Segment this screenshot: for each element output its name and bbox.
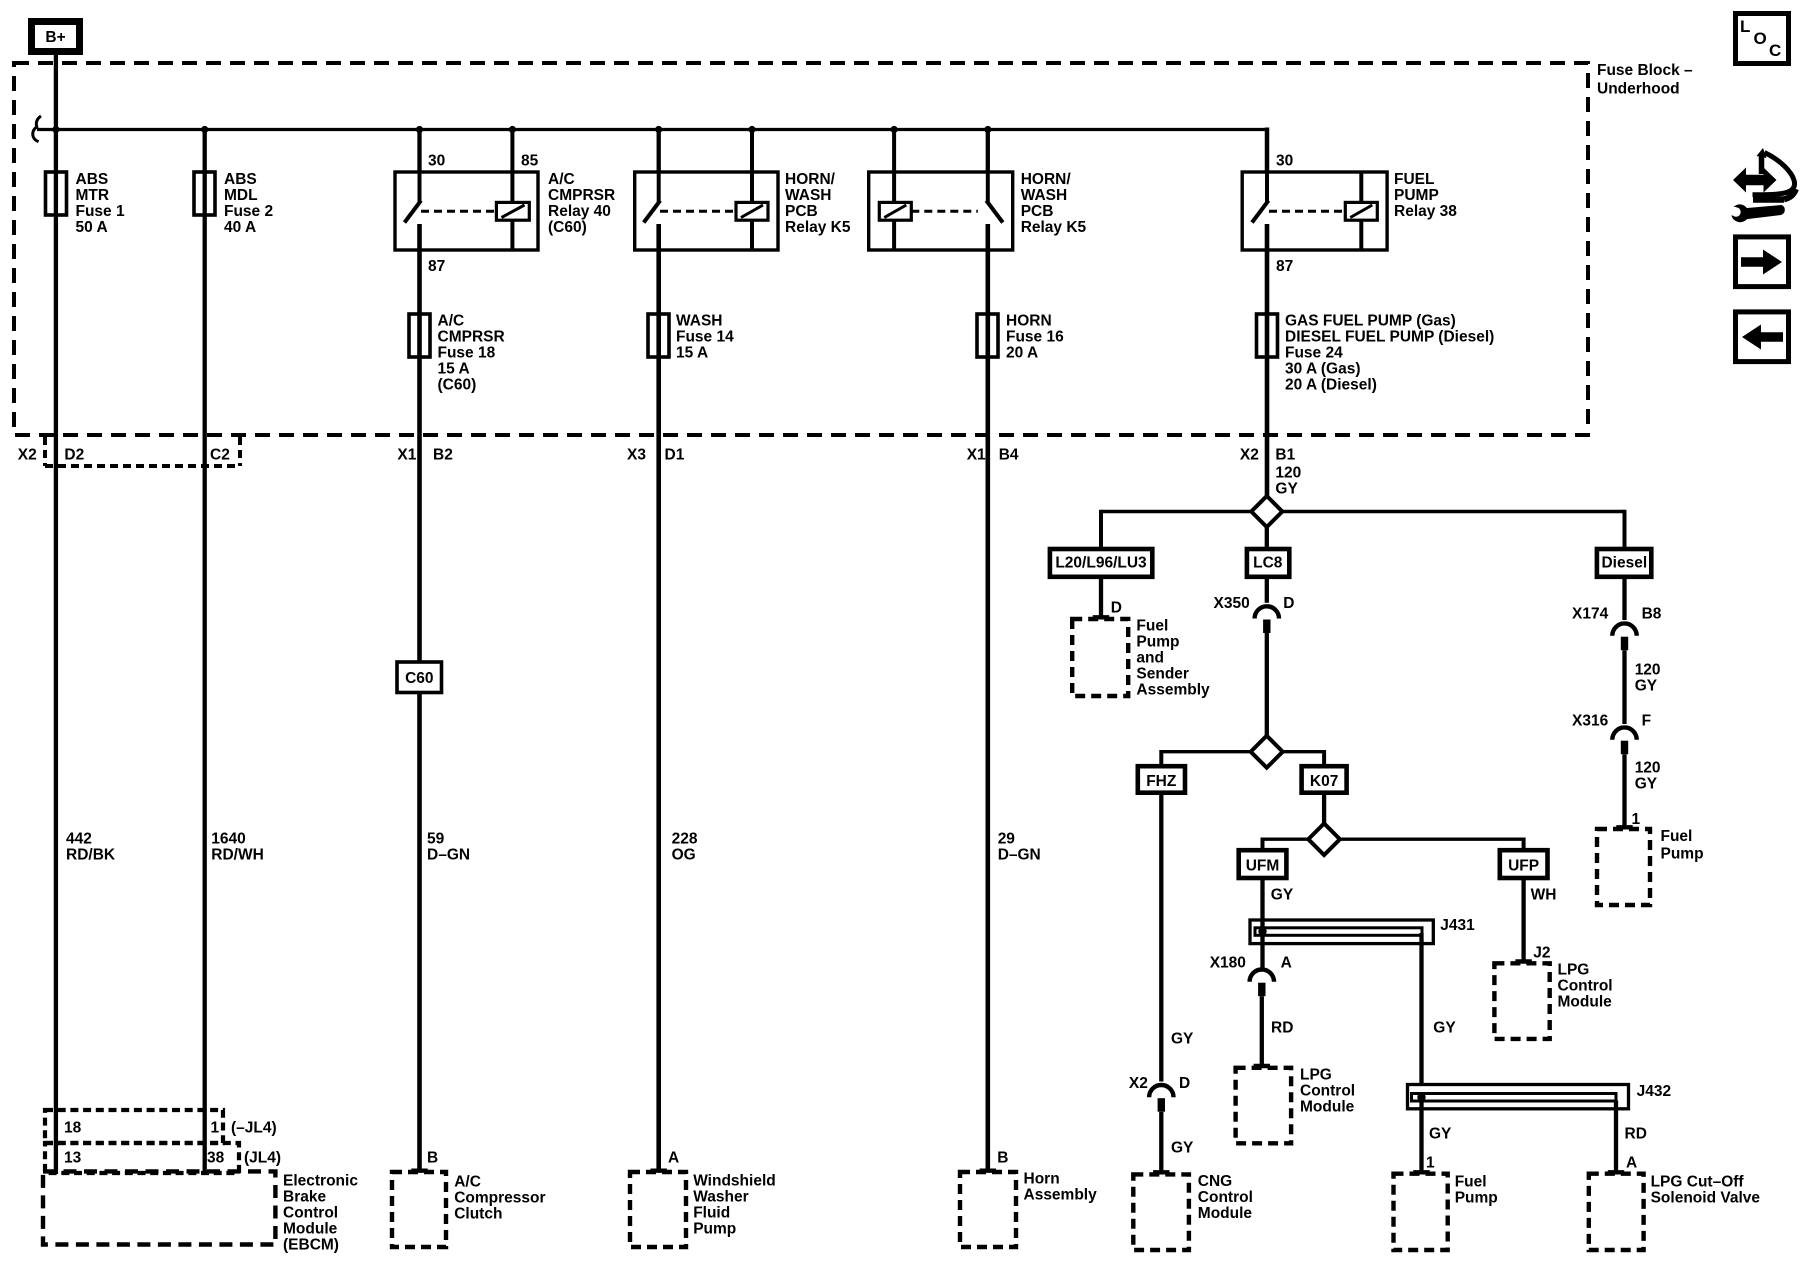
wire: relay K5-2 to horn (circuit 29) xyxy=(980,224,996,1171)
svg-text:L: L xyxy=(1740,17,1750,36)
wire: X350 to splice S2 xyxy=(1265,633,1269,737)
label: Fuse Block Underhood xyxy=(1597,62,1693,98)
svg-text:1: 1 xyxy=(1426,1155,1435,1172)
junction on bus x=987.8 xyxy=(984,126,991,133)
svg-text:GY: GY xyxy=(1271,887,1294,904)
Windshield Washer Fluid Pump component box xyxy=(630,1172,776,1247)
splice diamond S3 xyxy=(1308,823,1340,855)
label J432 xyxy=(1637,1083,1671,1100)
connector crossing X1 B2 xyxy=(397,447,452,464)
pin 1 fuel pump xyxy=(1426,1155,1435,1172)
LOC reference box xyxy=(1736,14,1789,64)
relay K5-2 coil pin wire xyxy=(892,130,896,204)
svg-text:59: 59 xyxy=(427,831,445,848)
svg-text:C60: C60 xyxy=(405,670,433,687)
svg-text:GY: GY xyxy=(1429,1126,1452,1143)
svg-text:GAS FUEL PUMP (Gas): GAS FUEL PUMP (Gas) xyxy=(1285,313,1456,330)
fuse block underhood dashed boundary xyxy=(14,63,1588,435)
svg-text:PCB: PCB xyxy=(785,203,818,220)
CNG Control Module component box xyxy=(1133,1173,1253,1250)
splice diamond S2 xyxy=(1251,736,1283,768)
wire: S2 right branch to K07 xyxy=(1282,750,1324,766)
wire: S1 left branch to L20/L96/LU3 xyxy=(1101,510,1252,547)
pin D fuel pump sender xyxy=(1111,600,1122,617)
fuse F16 HORN 20A xyxy=(977,313,1064,362)
svg-text:Fuel: Fuel xyxy=(1136,618,1168,635)
svg-text:Underhood: Underhood xyxy=(1597,81,1680,98)
Fuel Pump (LPG) component box xyxy=(1394,1174,1498,1251)
svg-text:A/C: A/C xyxy=(438,313,465,330)
Fuel Pump (diesel) component box xyxy=(1597,828,1704,905)
svg-text:Compressor: Compressor xyxy=(454,1190,545,1207)
relay K5-1 switch pin wire xyxy=(657,130,661,173)
label J431 xyxy=(1440,917,1475,934)
svg-text:A/C: A/C xyxy=(548,171,575,188)
svg-text:85: 85 xyxy=(521,153,539,170)
relay 38 pin 87 xyxy=(1276,258,1293,275)
relay K5 horn/wash box 2 xyxy=(869,172,1013,250)
connector X2 pin D (CNG) xyxy=(1129,1075,1190,1112)
junction on bus x=204.7 xyxy=(201,126,208,133)
relay 40 pin 30 wire xyxy=(420,130,446,173)
svg-text:1: 1 xyxy=(211,1120,220,1137)
wire: relay40 pin87 to C60 (circuit 59) xyxy=(417,224,422,663)
svg-text:MTR: MTR xyxy=(76,187,110,204)
junction on bus x=752 xyxy=(748,126,755,133)
svg-text:RD/BK: RD/BK xyxy=(66,847,116,864)
svg-text:Brake: Brake xyxy=(283,1189,326,1206)
svg-text:Pump: Pump xyxy=(1661,846,1704,863)
wire label 59 D-GN xyxy=(427,831,470,864)
RPO box UFP xyxy=(1500,850,1548,878)
svg-text:X2: X2 xyxy=(1129,1075,1148,1092)
svg-text:Washer: Washer xyxy=(693,1189,748,1206)
fuse F14 WASH 15A xyxy=(648,313,734,362)
wire: X2 to CNG module (GY) xyxy=(1153,1112,1194,1173)
svg-text:120: 120 xyxy=(1635,760,1661,777)
svg-text:(C60): (C60) xyxy=(548,219,587,236)
svg-text:X1: X1 xyxy=(397,447,416,464)
wire: UFM to J431 (GY) xyxy=(1263,878,1294,928)
svg-text:Relay K5: Relay K5 xyxy=(1021,219,1087,236)
svg-text:J431: J431 xyxy=(1440,917,1475,934)
engine option box LC8 xyxy=(1247,549,1289,577)
svg-text:50 A: 50 A xyxy=(76,219,108,236)
next-page arrow box xyxy=(1736,237,1789,287)
connector X180 pin A xyxy=(1210,955,1292,997)
svg-text:ABS: ABS xyxy=(76,171,109,188)
svg-text:WASH: WASH xyxy=(1021,187,1067,204)
svg-text:Pump: Pump xyxy=(1455,1190,1498,1207)
LPG Cut-Off Solenoid Valve component box xyxy=(1589,1174,1761,1251)
svg-text:Relay 40: Relay 40 xyxy=(548,203,611,220)
svg-text:RD: RD xyxy=(1271,1020,1293,1037)
svg-text:B: B xyxy=(427,1150,438,1167)
svg-text:GY: GY xyxy=(1433,1020,1456,1037)
connector crossing X1 B4 xyxy=(967,447,1019,464)
Horn Assembly component box xyxy=(960,1171,1097,1248)
svg-text:LC8: LC8 xyxy=(1253,555,1283,572)
wire: main B+ bus xyxy=(37,128,1265,131)
pin B of horn assembly xyxy=(997,1150,1008,1167)
previous-page arrow box xyxy=(1736,312,1789,362)
relay K5-1 coil xyxy=(736,202,768,251)
svg-text:B: B xyxy=(997,1150,1008,1167)
svg-text:18: 18 xyxy=(64,1120,82,1137)
wire label 120 GY xyxy=(1275,465,1301,498)
svg-text:X316: X316 xyxy=(1572,713,1609,730)
connector X350 pin D xyxy=(1214,595,1295,633)
svg-text:D–GN: D–GN xyxy=(998,847,1041,864)
svg-text:F: F xyxy=(1642,713,1651,730)
svg-text:A/C: A/C xyxy=(454,1174,481,1191)
pin 38 with (JL4) xyxy=(207,1150,281,1167)
wire label 228 OG xyxy=(672,831,698,864)
svg-text:WASH: WASH xyxy=(676,313,723,330)
svg-text:13: 13 xyxy=(64,1150,82,1167)
relay 40 A/C CMPRSR box xyxy=(395,172,538,250)
relay 38 name label xyxy=(1394,171,1457,220)
junction on bus x=658.7 xyxy=(655,126,662,133)
relay 40 switch xyxy=(405,170,422,223)
svg-text:X3: X3 xyxy=(627,447,646,464)
svg-text:B1: B1 xyxy=(1275,447,1295,464)
fuse F2 ABS MDL 40A xyxy=(194,171,273,236)
svg-text:PCB: PCB xyxy=(1021,203,1054,220)
svg-text:Relay K5: Relay K5 xyxy=(785,219,851,236)
wire: Diesel box to X174 xyxy=(1622,577,1626,620)
svg-text:J432: J432 xyxy=(1637,1083,1671,1100)
svg-text:HORN/: HORN/ xyxy=(785,171,836,188)
svg-text:Diesel: Diesel xyxy=(1601,555,1647,572)
svg-text:15 A: 15 A xyxy=(676,345,708,362)
svg-text:D2: D2 xyxy=(64,447,84,464)
svg-text:ABS: ABS xyxy=(224,171,257,188)
svg-text:1640: 1640 xyxy=(211,831,245,848)
svg-text:CMPRSR: CMPRSR xyxy=(548,187,615,204)
fusible-link curl at bus origin xyxy=(33,116,41,142)
pin B of A/C compressor clutch xyxy=(427,1150,438,1167)
wire: X180 to LPG module (RD) xyxy=(1254,996,1294,1066)
svg-text:GY: GY xyxy=(1275,481,1298,498)
svg-text:15 A: 15 A xyxy=(438,361,470,378)
wire label 120 GY diesel lower xyxy=(1616,754,1660,827)
svg-text:Sender: Sender xyxy=(1136,666,1189,683)
engine option box L20/L96/LU3 xyxy=(1050,549,1152,577)
pin 13 xyxy=(64,1150,82,1167)
svg-text:Pump: Pump xyxy=(693,1221,736,1238)
Fuel Pump and Sender Assembly component box xyxy=(1072,618,1210,699)
connector crossing X2 D2 C2 xyxy=(18,447,230,464)
battery feed B+ terminal xyxy=(32,22,80,52)
connector crossing X3 D1 xyxy=(627,447,685,464)
wire: relay K5-1 to washer pump (circuit 228) xyxy=(651,224,667,1171)
svg-text:120: 120 xyxy=(1635,662,1661,679)
svg-text:Clutch: Clutch xyxy=(454,1206,502,1223)
svg-text:Fuse 24: Fuse 24 xyxy=(1285,345,1343,362)
relay 38 fuel pump box xyxy=(1242,172,1387,250)
svg-text:LPG: LPG xyxy=(1300,1067,1332,1084)
relay 38 switch xyxy=(1252,170,1269,223)
relay K5 horn/wash box 1 xyxy=(635,172,778,250)
wire: LC8 to connector X350 xyxy=(1265,577,1269,603)
wire: S1 bottom to LC8 xyxy=(1265,526,1269,549)
svg-text:Solenoid Valve: Solenoid Valve xyxy=(1651,1190,1761,1207)
wire: C60 to A/C compressor clutch xyxy=(411,693,427,1171)
svg-text:29: 29 xyxy=(998,831,1016,848)
wire: J432 left to fuel pump (GY) xyxy=(1413,1101,1452,1173)
svg-text:X180: X180 xyxy=(1210,955,1246,972)
svg-text:Fuse 14: Fuse 14 xyxy=(676,329,734,346)
wire: FHZ to X2 connector (GY) xyxy=(1161,793,1194,1082)
svg-text:and: and xyxy=(1136,650,1164,667)
svg-text:40 A: 40 A xyxy=(224,219,256,236)
svg-text:(EBCM): (EBCM) xyxy=(283,1237,339,1254)
svg-text:O: O xyxy=(1754,29,1767,48)
A/C Compressor Clutch component box xyxy=(392,1172,546,1247)
junction on bus x=55.9 xyxy=(52,126,59,133)
connector grouping dashed box below X2 D2 C2 xyxy=(45,437,240,466)
relay 40 coil xyxy=(496,202,529,251)
svg-text:Fuse 18: Fuse 18 xyxy=(438,345,496,362)
svg-text:Relay 38: Relay 38 xyxy=(1394,203,1457,220)
svg-text:Fuse 2: Fuse 2 xyxy=(224,203,273,220)
wire: S2 left branch to FHZ xyxy=(1161,750,1251,766)
svg-text:B2: B2 xyxy=(433,447,453,464)
Electronic Brake Control Module component box xyxy=(43,1171,358,1253)
svg-text:20 A: 20 A xyxy=(1006,345,1038,362)
wire label 29 D-GN xyxy=(998,831,1041,864)
svg-text:Module: Module xyxy=(1558,994,1613,1011)
svg-text:D–GN: D–GN xyxy=(427,847,470,864)
splice pack J432 xyxy=(1408,1085,1629,1109)
svg-text:30: 30 xyxy=(428,153,445,170)
LPG Control Module (center) component box xyxy=(1236,1067,1356,1144)
relay 40 pin 87 xyxy=(428,258,445,275)
relay 38 actuator dashed link xyxy=(1269,210,1345,213)
inline connector C60 xyxy=(397,662,442,693)
svg-text:Fuse 16: Fuse 16 xyxy=(1006,329,1064,346)
service tool icon xyxy=(1727,148,1797,222)
svg-text:Control: Control xyxy=(1300,1083,1355,1100)
relay K5-2 actuator dashed link xyxy=(911,210,978,213)
svg-text:X1: X1 xyxy=(967,447,986,464)
svg-text:Electronic: Electronic xyxy=(283,1173,358,1190)
relay 40 name label xyxy=(548,171,615,236)
svg-text:87: 87 xyxy=(1276,258,1293,275)
svg-text:FHZ: FHZ xyxy=(1146,773,1177,790)
svg-text:(JL4): (JL4) xyxy=(244,1150,281,1167)
fuse F1 ABS MTR 50A xyxy=(46,171,125,236)
svg-text:Fuse Block –: Fuse Block – xyxy=(1597,62,1693,79)
svg-text:Windshield: Windshield xyxy=(693,1173,776,1190)
svg-text:C: C xyxy=(1769,41,1781,60)
pin A LPG cut-off valve xyxy=(1626,1155,1637,1172)
wire: S3 left branch to UFM xyxy=(1263,838,1309,851)
RPO box UFM xyxy=(1239,850,1287,878)
pin 1 diesel fuel pump xyxy=(1632,811,1641,828)
relay K5-1 switch xyxy=(644,170,661,223)
wire: B+ drop / circuit 442 column xyxy=(54,53,58,1174)
svg-text:B+: B+ xyxy=(45,29,65,46)
svg-text:FUEL: FUEL xyxy=(1394,171,1434,188)
relay 40 pin 85 coil wire xyxy=(512,130,538,204)
svg-text:1: 1 xyxy=(1632,811,1641,828)
connector X174 pin B8 xyxy=(1572,606,1662,651)
svg-text:Control: Control xyxy=(1198,1189,1253,1206)
wire: K07 to splice S3 xyxy=(1322,793,1326,825)
wire label 1640 RD/WH xyxy=(211,831,264,864)
svg-text:DIESEL FUEL PUMP (Diesel): DIESEL FUEL PUMP (Diesel) xyxy=(1285,329,1494,346)
svg-text:GY: GY xyxy=(1171,1140,1194,1157)
svg-text:Module: Module xyxy=(283,1221,338,1238)
svg-text:GY: GY xyxy=(1635,678,1658,695)
svg-text:J2: J2 xyxy=(1533,945,1550,962)
svg-text:Control: Control xyxy=(1558,978,1613,995)
wire label 442 RD/BK xyxy=(66,831,116,864)
svg-text:GY: GY xyxy=(1635,776,1658,793)
svg-text:X350: X350 xyxy=(1214,595,1250,612)
junction on bus x=894.1 xyxy=(891,126,898,133)
svg-text:Fuel: Fuel xyxy=(1661,828,1693,845)
svg-text:Fuse 1: Fuse 1 xyxy=(76,203,125,220)
engine option box Diesel xyxy=(1597,549,1651,577)
relay K5-2 switch xyxy=(986,170,1003,223)
fuse F18 A/C CMPRSR 15A xyxy=(409,313,505,394)
svg-text:C2: C2 xyxy=(210,447,230,464)
junction on bus x=419.5 xyxy=(416,126,423,133)
svg-text:D1: D1 xyxy=(665,447,685,464)
wire: UFP to J2 (WH) xyxy=(1515,878,1556,962)
relay K5-1 actuator dashed link xyxy=(660,210,736,213)
junction on bus x=512.4 xyxy=(509,126,516,133)
svg-text:Module: Module xyxy=(1300,1099,1355,1116)
svg-text:X174: X174 xyxy=(1572,606,1609,623)
relay 38 coil xyxy=(1345,172,1377,251)
svg-text:A: A xyxy=(1281,955,1292,972)
relay 38 pin 30 wire from bus elbow xyxy=(1267,128,1293,173)
svg-text:B8: B8 xyxy=(1642,606,1662,623)
fuse F24 fuel pump xyxy=(1257,313,1495,394)
svg-text:CNG: CNG xyxy=(1198,1173,1232,1190)
svg-text:(–JL4): (–JL4) xyxy=(231,1120,277,1137)
svg-text:HORN/: HORN/ xyxy=(1021,171,1072,188)
relay K5-2 coil xyxy=(879,202,911,251)
svg-text:38: 38 xyxy=(207,1150,225,1167)
svg-text:B4: B4 xyxy=(999,447,1019,464)
svg-text:30: 30 xyxy=(1276,153,1293,170)
RPO box FHZ xyxy=(1138,766,1185,793)
svg-text:X2: X2 xyxy=(1240,447,1259,464)
relay K5-2 switch pin wire xyxy=(986,130,990,173)
svg-text:D: D xyxy=(1179,1075,1190,1092)
svg-text:20 A (Diesel): 20 A (Diesel) xyxy=(1285,377,1377,394)
svg-text:UFM: UFM xyxy=(1246,858,1280,875)
svg-text:RD/WH: RD/WH xyxy=(211,847,264,864)
wire: S3 right branch to UFP xyxy=(1340,838,1524,851)
wire label 120 GY diesel upper xyxy=(1625,650,1661,724)
RPO box K07 xyxy=(1302,766,1347,793)
svg-text:X2: X2 xyxy=(18,447,37,464)
splice pack J431 xyxy=(1250,920,1433,944)
svg-text:RD: RD xyxy=(1625,1126,1647,1143)
svg-text:87: 87 xyxy=(428,258,445,275)
wire: circuit 1640 column xyxy=(203,130,207,1175)
svg-text:Fuel: Fuel xyxy=(1455,1174,1487,1191)
svg-text:UFP: UFP xyxy=(1508,858,1539,875)
svg-text:MDL: MDL xyxy=(224,187,258,204)
EBCM connector dashed box pins 13/38 xyxy=(45,1143,239,1173)
svg-text:WH: WH xyxy=(1531,887,1557,904)
wire: J432 right to LPG cut-off valve (RD) xyxy=(1608,1101,1647,1173)
wire: J431 right drop to J432 (GY) xyxy=(1422,933,1457,1086)
svg-text:LPG: LPG xyxy=(1558,962,1590,979)
wire: relay 38 pin 87 to splice (circuit 120) xyxy=(1265,224,1270,497)
svg-text:WASH: WASH xyxy=(785,187,832,204)
splice diamond S1 xyxy=(1251,496,1282,527)
svg-text:30 A (Gas): 30 A (Gas) xyxy=(1285,361,1361,378)
svg-text:A: A xyxy=(668,1150,679,1167)
svg-text:LPG Cut–Off: LPG Cut–Off xyxy=(1651,1174,1745,1191)
svg-text:A: A xyxy=(1626,1155,1637,1172)
svg-text:OG: OG xyxy=(672,847,696,864)
pin J2 LPG module xyxy=(1533,945,1550,962)
wire: S1 right branch to Diesel xyxy=(1282,510,1624,547)
svg-text:HORN: HORN xyxy=(1006,313,1052,330)
LPG Control Module (right) component box xyxy=(1494,962,1612,1039)
svg-text:228: 228 xyxy=(672,831,698,848)
connector crossing X2 B1 xyxy=(1240,447,1296,464)
svg-text:Module: Module xyxy=(1198,1205,1253,1222)
EBCM connector dashed box pins 18/1 xyxy=(45,1110,223,1143)
svg-text:442: 442 xyxy=(66,831,92,848)
svg-text:D: D xyxy=(1111,600,1122,617)
svg-text:PUMP: PUMP xyxy=(1394,187,1439,204)
svg-text:CMPRSR: CMPRSR xyxy=(438,329,505,346)
pin A of washer pump xyxy=(668,1150,679,1167)
relay 40 actuator dashed link xyxy=(421,210,496,213)
svg-text:Assembly: Assembly xyxy=(1024,1187,1098,1204)
svg-text:K07: K07 xyxy=(1310,773,1338,790)
svg-text:GY: GY xyxy=(1171,1031,1194,1048)
svg-text:Horn: Horn xyxy=(1024,1171,1060,1188)
svg-text:Control: Control xyxy=(283,1205,338,1222)
svg-text:L20/L96/LU3: L20/L96/LU3 xyxy=(1055,555,1147,572)
svg-text:(C60): (C60) xyxy=(438,377,477,394)
svg-text:D: D xyxy=(1283,595,1294,612)
wire: L20 box to fuel pump sender xyxy=(1093,577,1109,618)
pin 18 xyxy=(64,1120,82,1137)
pin 1 with (-JL4) xyxy=(211,1120,277,1137)
svg-text:120: 120 xyxy=(1275,465,1301,482)
wire: J431 through to X180 xyxy=(1260,935,1264,971)
svg-text:Fluid: Fluid xyxy=(693,1205,730,1222)
relay K5-1 name label xyxy=(785,171,851,236)
relay K5-1 coil pin wire xyxy=(750,130,754,204)
connector X316 pin F xyxy=(1572,713,1651,755)
relay K5-2 name label xyxy=(1021,171,1087,236)
svg-text:Assembly: Assembly xyxy=(1136,682,1210,699)
svg-text:Pump: Pump xyxy=(1136,634,1179,651)
